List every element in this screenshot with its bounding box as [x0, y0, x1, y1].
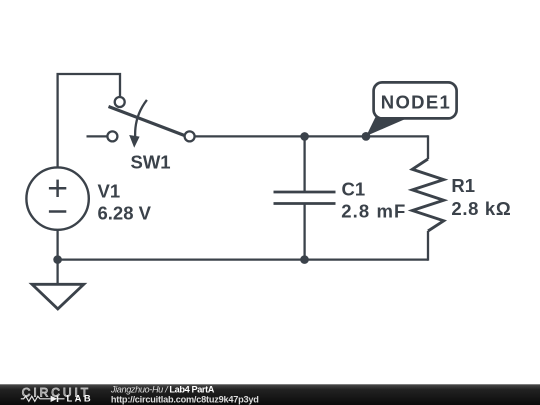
svg-text:6.28 V: 6.28 V	[98, 202, 152, 223]
junction: C1 top	[300, 132, 309, 141]
junction: C1 bottom	[300, 255, 309, 264]
ground	[32, 260, 84, 309]
svg-text:LAB: LAB	[67, 392, 91, 403]
label C1 value	[341, 178, 405, 221]
footer bar	[0, 384, 540, 405]
wire: bottom rail	[58, 258, 428, 260]
svg-text:V1: V1	[98, 180, 121, 201]
footer title text	[110, 385, 259, 405]
svg-text:http://circuitlab.com/c8tuz9k4: http://circuitlab.com/c8tuz9k47p3yd	[111, 394, 259, 404]
svg-text:SW1: SW1	[131, 152, 171, 173]
svg-text:C1: C1	[342, 178, 366, 199]
voltage source V1	[26, 167, 88, 259]
wire: SW1 to R1 top	[195, 135, 428, 137]
svg-text:2.8 mF: 2.8 mF	[341, 200, 405, 221]
svg-text:Jiangzhuo-Hu / Lab4 PartA: Jiangzhuo-Hu / Lab4 PartA	[110, 385, 215, 395]
switch SW1	[87, 97, 195, 148]
resistor R1	[412, 135, 443, 260]
svg-text:NODE1: NODE1	[381, 92, 450, 113]
wire: V1 top up and over to SW1 pole	[58, 74, 120, 168]
label SW1	[131, 152, 171, 173]
capacitor C1	[274, 136, 336, 259]
junction: V1 bottom / ground	[53, 255, 62, 264]
node NODE1 junction dot	[362, 132, 371, 141]
svg-text:R1: R1	[451, 175, 475, 196]
node NODE1 flag	[366, 82, 456, 136]
label V1 value	[98, 180, 152, 223]
footer CircuitLab logo	[21, 385, 91, 403]
svg-text:2.8 kΩ: 2.8 kΩ	[451, 198, 510, 219]
label R1 value	[451, 175, 510, 219]
